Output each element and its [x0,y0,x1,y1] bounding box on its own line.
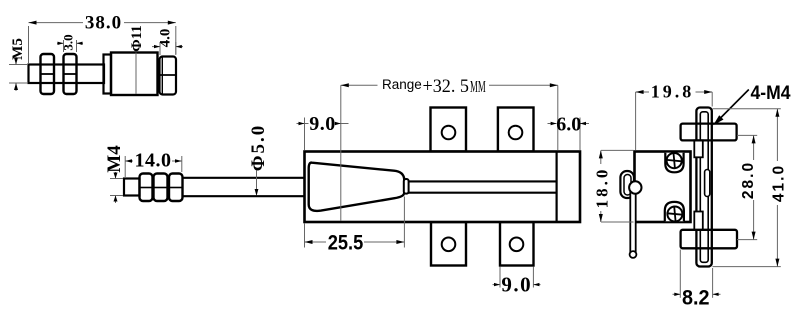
dimension M4 [104,145,125,203]
svg-text:6.0: 6.0 [556,114,581,136]
hook pin tip [630,251,637,258]
bottom tab bar [681,230,737,249]
svg-text:8.2: 8.2 [682,287,710,310]
hook capsule inner [624,175,631,196]
part: end view (right) [620,108,737,267]
svg-text:41.0: 41.0 [771,164,788,202]
svg-text:4.0: 4.0 [158,29,174,48]
shaft boss capsule [705,170,710,197]
svg-text:Φ11: Φ11 [129,25,145,52]
top step stub [694,140,703,157]
nut 1 [140,174,153,202]
mounting plate inner [700,112,708,262]
end cap 4.0 [160,57,177,95]
bottom mounting tab 1 [431,222,466,266]
svg-text:+32. 5: +32. 5 [423,77,470,97]
top mounting tab 1 [431,108,467,152]
M4 stub [124,179,140,196]
hook pivot circle [629,181,641,193]
svg-text:4-M4: 4-M4 [751,82,791,104]
dimension 25.5 [305,197,405,255]
dimension 4.0 (cap width) [152,29,183,55]
rod phi5 [183,177,309,179]
svg-text:Φ5.0: Φ5.0 [248,124,269,172]
dimension 8.2 [673,250,721,310]
part: main housing (side view) [305,108,581,266]
screw bottom (phillips, in pocket) [665,202,684,222]
cone tip [404,179,409,194]
dimension 38.0 [29,13,176,64]
dimension phi5.0 leader [248,124,269,196]
nut 1 on M5 [41,54,55,94]
svg-text:M5: M5 [10,38,26,60]
svg-text:MM: MM [470,77,486,96]
nut 2 [154,174,168,202]
dimension Range +32.5MM [341,77,558,221]
svg-text:25.5: 25.5 [328,232,364,255]
body square [635,152,691,223]
part: M4 plunger rod (lower-left) [124,174,309,202]
dimension 6.0 (right top) [548,114,590,151]
svg-text:14.0: 14.0 [135,150,172,172]
hole top tab 1 [442,126,456,140]
hole bottom tab 1 [442,238,456,252]
body cylinder phi11 [111,53,158,96]
end block divider [555,152,557,223]
inner shaft lines [408,180,557,182]
dimension 41.0 [713,109,788,267]
part: M5 shaft-end assembly (top-left view) [29,53,177,96]
dimension 9.0 (left top) [297,113,349,151]
nut 2 on M5 [64,54,77,94]
hole bottom tab 2 [510,238,524,252]
label 4-M4 with leader [713,82,790,125]
dimension 14.0 [125,150,182,178]
dimension M5 [9,38,27,91]
svg-text:28.0: 28.0 [740,161,757,199]
svg-text:9.0: 9.0 [501,273,532,297]
top tab bar [681,124,737,141]
bottom step stub [694,212,703,230]
hook capsule outer [620,171,634,198]
svg-text:38.0: 38.0 [85,13,122,34]
dimension 18.0 [593,150,634,222]
dimension phi11 leader [129,25,145,94]
wiper cone [309,163,405,211]
dimension 19.8 [636,82,713,151]
dimension 28.0 [737,135,757,239]
svg-text:18.0: 18.0 [593,167,612,209]
housing body [305,152,581,223]
svg-text:M4: M4 [104,145,125,173]
mounting plate outer [696,108,711,267]
nut 3 [169,174,183,202]
step collar [104,55,112,94]
top mounting tab 2 [498,108,534,152]
svg-text:Range: Range [382,77,422,92]
svg-text:19.8: 19.8 [651,82,695,102]
svg-text:3.0: 3.0 [61,34,76,50]
hole top tab 2 [509,126,523,140]
dimension 9.0 (bottom) [493,267,541,297]
svg-text:9.0: 9.0 [309,113,336,135]
screw top (phillips, in pocket) [665,153,683,173]
dimension 3.0 (nut width) [57,34,83,52]
hook pin rod [630,190,635,252]
rod M5 [29,65,105,84]
bottom mounting tab 2 [500,222,534,266]
